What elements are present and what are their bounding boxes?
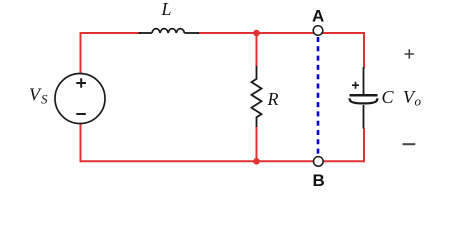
svg-text:B: B xyxy=(313,171,325,190)
wire resistor branch lower xyxy=(256,127,258,162)
node A terminal circle xyxy=(313,26,323,36)
wire right lower segment xyxy=(363,128,365,162)
svg-text:C: C xyxy=(382,87,395,107)
wire bottom segment xyxy=(81,160,365,162)
label C xyxy=(382,87,395,107)
label VS xyxy=(29,85,48,107)
wire top-left segment xyxy=(81,32,142,34)
dashed port line A-B xyxy=(317,37,320,157)
junction dot top (node at resistor/top wire) xyxy=(253,30,260,37)
label Vo xyxy=(403,87,422,109)
label B xyxy=(313,171,325,190)
resistor R xyxy=(252,66,262,127)
wire resistor branch upper xyxy=(256,33,258,67)
wire top-right segment xyxy=(197,32,364,34)
svg-text:o: o xyxy=(415,94,422,109)
output polarity + xyxy=(405,49,415,59)
label L xyxy=(161,0,172,19)
inductor L xyxy=(139,29,200,33)
capacitor polarity + xyxy=(352,82,359,89)
svg-text:L: L xyxy=(161,0,172,19)
junction dot bottom (node at resistor/bottom wire) xyxy=(253,158,260,165)
capacitor C xyxy=(350,67,378,129)
wire left upper segment xyxy=(80,32,82,75)
svg-text:A: A xyxy=(312,7,324,26)
label A xyxy=(312,7,324,26)
output polarity - xyxy=(403,143,416,145)
node B terminal circle xyxy=(314,157,324,167)
svg-text:S: S xyxy=(41,92,48,107)
wire left lower segment xyxy=(80,123,82,162)
wire right upper segment xyxy=(363,32,365,68)
svg-text:R: R xyxy=(267,89,279,109)
label R xyxy=(267,89,279,109)
voltage source VS xyxy=(55,74,105,124)
